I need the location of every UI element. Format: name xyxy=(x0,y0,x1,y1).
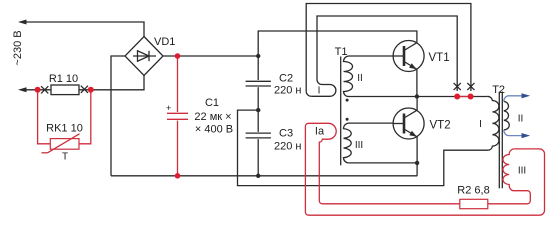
svg-text:I: I xyxy=(318,86,321,97)
node red junction C1 bottom xyxy=(175,173,181,179)
wire VT1 collector feed from plus rail xyxy=(258,31,417,56)
svg-text:22 мк ×: 22 мк × xyxy=(194,111,231,123)
wire plus rail bridge right to C2 xyxy=(163,55,258,57)
svg-text:II: II xyxy=(518,114,524,125)
transformer T2 winding III (red) xyxy=(488,149,531,204)
svg-text:Т: Т xyxy=(62,152,68,163)
wire blue output lead top xyxy=(504,96,522,102)
node junction emitter / winding III xyxy=(415,161,419,165)
svg-text:VT1: VT1 xyxy=(429,52,450,64)
transformer T2 winding II xyxy=(504,101,509,130)
node arrow bottom AC xyxy=(18,87,27,92)
node cut mark left top loop xyxy=(454,83,461,90)
wire blue output lead bottom xyxy=(504,130,522,136)
node junction transistors midpoint xyxy=(415,94,419,98)
node polarity dot T1 winding II xyxy=(346,99,349,102)
svg-text:VD1: VD1 xyxy=(154,36,175,48)
node cut mark right of R1 xyxy=(81,86,88,93)
transformer T1 core xyxy=(340,57,342,166)
svg-text:III: III xyxy=(355,140,363,151)
svg-text:Ia: Ia xyxy=(315,126,325,138)
wire R1 to bridge bottom xyxy=(79,76,144,90)
node polarity dot T1 winding III xyxy=(346,118,349,121)
wire red segment between new solder points xyxy=(457,96,470,98)
svg-text:RK1 10: RK1 10 xyxy=(46,123,83,135)
svg-text:~230 В: ~230 В xyxy=(12,30,24,65)
capacitor C1 (red, added) xyxy=(177,56,179,112)
svg-text:R1 10: R1 10 xyxy=(49,73,78,85)
transistor VT1 xyxy=(393,41,424,72)
node cut mark right top loop xyxy=(467,83,474,90)
node junction C2/C3 midpoint xyxy=(256,108,260,112)
wire bottom AC line to R1 xyxy=(26,89,51,91)
transformer T2 winding I xyxy=(487,96,499,150)
wire VT2 emitter down to rail xyxy=(416,137,418,176)
wire minus bottom rail xyxy=(111,175,417,177)
thermistor RK1 xyxy=(50,139,79,150)
resistor R2 (red, added) xyxy=(460,199,488,208)
resistor R1 xyxy=(51,85,79,95)
svg-text:I: I xyxy=(479,119,482,130)
transformer T1 winding III xyxy=(344,123,405,163)
svg-text:C3: C3 xyxy=(279,128,293,140)
capacitor C2 xyxy=(257,56,259,80)
transformer T2 core xyxy=(498,92,500,189)
svg-text:VT2: VT2 xyxy=(430,120,451,132)
svg-text:T2: T2 xyxy=(492,84,505,96)
svg-text:II: II xyxy=(357,73,363,84)
svg-text:+: + xyxy=(166,103,171,113)
node red junction right of R1 xyxy=(88,87,94,93)
svg-text:C2: C2 xyxy=(279,73,293,85)
svg-text:220 н: 220 н xyxy=(274,85,301,97)
wire VT2 collector up to midpoint xyxy=(416,97,418,111)
node junction C3 bottom rail xyxy=(256,174,260,178)
wire RK1 red parallel loop xyxy=(38,90,51,144)
svg-text:R2 6,8: R2 6,8 xyxy=(457,185,489,197)
node arrow top AC xyxy=(18,20,27,25)
node junction plus rail / C2 xyxy=(256,54,260,58)
wire red feedback loop through T1 (Ia) and along bottom xyxy=(305,123,544,215)
transformer T1 winding II xyxy=(344,56,405,97)
node red junction left of R1 xyxy=(35,87,41,93)
wire cap midpoint to T2 primary return xyxy=(238,110,489,186)
wire transistors midpoint to T2 primary xyxy=(417,96,487,98)
wire VT1 emitter down to midpoint xyxy=(416,69,418,96)
wire T1 winding III bottom to emitter VT2 xyxy=(349,162,418,164)
node red solder point left xyxy=(454,94,460,100)
wire outer top loop (winding I outer lead, cut at right) xyxy=(311,95,330,97)
svg-text:III: III xyxy=(518,166,526,177)
node red junction C1 top xyxy=(175,53,181,59)
capacitor C3 xyxy=(257,110,259,132)
wire bridge left corner to minus rail xyxy=(111,56,125,176)
wire top AC line xyxy=(26,22,144,37)
node red solder point right xyxy=(468,94,474,100)
svg-text:220 н: 220 н xyxy=(274,141,301,153)
svg-text:C1: C1 xyxy=(205,97,219,109)
svg-text:× 400 В: × 400 В xyxy=(195,124,233,136)
transistor VT2 xyxy=(393,108,424,139)
node cut mark left of R1 xyxy=(41,86,48,93)
diode bridge VD1 xyxy=(125,37,163,76)
wire inner top loop (winding I inner lead, cut at right) xyxy=(322,84,330,86)
svg-text:T1: T1 xyxy=(335,46,348,58)
wire T1 winding II bottom to transistors midpoint xyxy=(349,96,417,98)
